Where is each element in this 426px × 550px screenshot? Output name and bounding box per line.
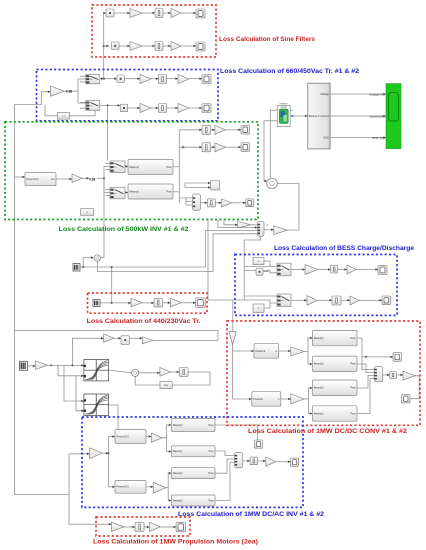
gain block (440/230 row) [131, 298, 142, 307]
wire [172, 372, 210, 385]
region box: Sine Filters loss (red dashed) [92, 5, 216, 57]
wire [166, 472, 172, 488]
constant block (discharge) [253, 304, 264, 312]
wire [244, 266, 277, 268]
display block (INV sum) [291, 458, 299, 466]
svg-text:Loss Calculation of BESS Charg: Loss Calculation of BESS Charge/Discharg… [274, 245, 414, 252]
wire [104, 178, 110, 192]
wire [98, 234, 258, 272]
wire [167, 107, 179, 110]
battery block icon [277, 106, 290, 127]
wire [397, 374, 404, 377]
wire [185, 146, 202, 149]
integrator block (charge) [331, 265, 338, 273]
wire [383, 374, 390, 377]
region box: 1MW DC/AC INV loss (blue dashed) [82, 417, 303, 507]
wire [279, 350, 291, 353]
label: Loss Calculation of BESS Charge/Discharge [274, 245, 414, 252]
product block (aux row) [121, 336, 130, 345]
wire [163, 302, 171, 305]
wire [128, 107, 140, 110]
product block (sine filter row 2 input) [112, 42, 120, 50]
gain block (efficiency out) [274, 226, 287, 235]
scope port label Current (A) [369, 114, 384, 118]
svg-text:T: T [267, 224, 269, 228]
gain block 2 (sine filter row 1) [171, 9, 181, 18]
display block (INV row 1) [241, 125, 250, 134]
wire [104, 77, 117, 80]
display block (charge) [378, 265, 387, 274]
wire [233, 345, 252, 401]
wire [186, 201, 193, 203]
wire [168, 488, 171, 502]
wire [304, 387, 312, 399]
wire [77, 79, 79, 103]
svg-text:out: out [51, 177, 55, 181]
gain block (DC/DC input, down) [229, 331, 236, 344]
wire [173, 191, 179, 193]
svg-text:Voltage (V): Voltage (V) [369, 92, 384, 96]
wire [163, 12, 171, 15]
wire [263, 270, 268, 272]
svg-text:Pow: Pow [208, 498, 213, 502]
wire [244, 271, 277, 273]
display block (Tr#1 row) [202, 75, 211, 84]
gain block (INV row 1) [215, 125, 226, 134]
switch block (discharge) [277, 294, 291, 307]
wire [124, 526, 135, 529]
wire [107, 105, 109, 160]
wire [338, 268, 347, 271]
wire [208, 220, 244, 301]
wire [109, 486, 116, 489]
wire [80, 101, 86, 103]
wire [45, 105, 57, 116]
wire [65, 90, 78, 92]
wire [167, 77, 179, 80]
gain block (CONV#2) [291, 394, 304, 404]
wire [211, 146, 215, 149]
svg-text:Current (A): Current (A) [369, 114, 384, 118]
display block (sine filter row 1) [196, 9, 205, 18]
display block (CONV output) [402, 394, 411, 403]
wire [15, 90, 51, 104]
gain block (500kW input) [72, 174, 82, 183]
wire [100, 178, 104, 257]
value label 0.98 [66, 90, 72, 94]
gain block (660/450 input) [50, 86, 64, 96]
display block (discharge) [382, 296, 391, 305]
subsystem block CONV loss #4 [313, 406, 358, 421]
svg-text:Pow: Pow [350, 362, 355, 366]
gain block 2 (aux row) [142, 337, 153, 344]
wire [142, 45, 155, 48]
display block (INV #1) [254, 440, 262, 448]
subsystem block CONV#1 [254, 344, 279, 359]
wire [80, 81, 86, 83]
svg-text:Pow: Pow [350, 386, 355, 390]
wire [173, 166, 179, 168]
wire [15, 331, 219, 341]
svg-text:PowGUI: PowGUI [256, 349, 266, 353]
transfer fcn block Tau [160, 382, 172, 389]
svg-text:Mean(s): Mean(s) [314, 386, 324, 390]
wire [211, 129, 215, 132]
battery measurement block [308, 83, 330, 149]
region box: 440/230Vac Tr loss (red dashed) [88, 293, 208, 313]
display block (sine filter row 2) [196, 42, 205, 51]
svg-text:PowerGUI: PowerGUI [117, 434, 129, 438]
mux block (CONV outputs) [374, 366, 383, 381]
wire [186, 204, 193, 206]
wire [170, 371, 179, 374]
svg-text:Mean(s): Mean(s) [130, 189, 140, 193]
wire [215, 202, 221, 205]
wire [224, 220, 238, 227]
svg-text:Loss Calculation of 1MW Propul: Loss Calculation of 1MW Propulsion Motor… [93, 539, 258, 546]
subsystem block INV source #1 [115, 430, 146, 444]
svg-text:Mean(s): Mean(s) [314, 411, 324, 415]
wire [277, 184, 299, 231]
battery top label [280, 103, 288, 104]
wire [341, 299, 350, 302]
wire [111, 267, 113, 303]
wire [142, 12, 155, 15]
wire [83, 256, 93, 267]
mux block (2-in) [211, 181, 220, 190]
svg-text:Mean(s): Mean(s) [314, 336, 324, 340]
svg-text:Loss Calculation of 440/230Vac: Loss Calculation of 440/230Vac Tr. [87, 318, 201, 325]
wire [330, 115, 386, 118]
wire [15, 105, 70, 495]
wire [117, 45, 130, 48]
wire [80, 266, 83, 268]
product block (charge) [256, 268, 263, 275]
value label (500kW gain) [89, 178, 95, 182]
gain block (INV#1) [151, 433, 162, 442]
wire [125, 165, 128, 168]
wire [244, 300, 277, 303]
junction [71, 364, 73, 366]
gain block (Tr#2 row) [140, 104, 151, 113]
wire [308, 352, 313, 366]
wire [184, 183, 186, 188]
mux block (INV outputs) [235, 453, 243, 468]
label: Loss Calculation of 1MW DC/DC CONV #1 & #2 [248, 428, 407, 435]
gain block (INV row 2) [215, 143, 226, 152]
gain block (INV sum) [266, 457, 276, 466]
gain block (DC/AC input) [90, 448, 103, 459]
wire [185, 186, 211, 189]
gain block (motors row) [111, 522, 124, 531]
junction [108, 452, 110, 454]
display block (Tr#2 row) [202, 104, 211, 113]
svg-text:Loss Calculation of 500kW INV: Loss Calculation of 500kW INV #1 & #2 [59, 226, 189, 233]
switch block Tr#1 [86, 74, 100, 84]
svg-text:Loss Calculation of 660/450Vac: Loss Calculation of 660/450Vac Tr. #1 & … [220, 68, 359, 75]
wire [215, 463, 235, 501]
wire [162, 424, 171, 438]
svg-text:SOC (%): SOC (%) [372, 136, 384, 140]
region box: 660/450Vac Tr loss (blue dashed) [37, 70, 219, 121]
wire [135, 376, 160, 385]
gain block (propulsion feed) [36, 361, 48, 370]
wire [144, 526, 149, 529]
junction [103, 177, 105, 179]
wire [125, 191, 128, 194]
wire [56, 178, 72, 181]
scope port label SOC (%) [372, 136, 384, 140]
wire [130, 337, 142, 340]
gain block 2 (Tr#2 row) [178, 104, 189, 113]
wire [357, 364, 374, 373]
gain block (charge) [305, 265, 318, 275]
wire [189, 107, 202, 110]
wire [182, 302, 196, 305]
constant block (660/450) [57, 112, 69, 119]
wire [15, 176, 26, 179]
wire [64, 365, 84, 402]
wire [291, 299, 307, 302]
wire [179, 197, 192, 199]
wire [359, 299, 382, 302]
wire [80, 107, 86, 109]
wire [330, 136, 386, 139]
svg-text:Loss Calculation of Sine Filte: Loss Calculation of Sine Filters [219, 36, 315, 43]
svg-text:Mean(s): Mean(s) [130, 165, 140, 169]
wire [109, 370, 132, 373]
wire [142, 302, 154, 305]
switch block INV#2 [110, 187, 125, 199]
subsystem block CONV loss #2 [313, 356, 358, 371]
subsystem block INV#2 loss calc [128, 184, 173, 199]
junction [103, 45, 105, 47]
gain block (INV#2) [153, 482, 166, 493]
wire [139, 372, 160, 375]
wire [106, 169, 111, 171]
wire [167, 438, 172, 453]
svg-text:Mean(s): Mean(s) [173, 471, 183, 475]
mux block (efficiency) [257, 222, 264, 237]
three-phase source block (440/230 Tr) [93, 300, 100, 307]
wire [290, 109, 293, 111]
wire [244, 236, 261, 300]
gain block (efficiency) [238, 222, 251, 229]
wire [201, 202, 208, 205]
sum block (load power) [94, 255, 100, 261]
gain block (sine filter row 2) [130, 42, 142, 51]
svg-text:Mean(s): Mean(s) [173, 423, 183, 427]
green scope block [386, 84, 401, 149]
svg-text:SOC: SOC [323, 136, 329, 140]
wire [48, 364, 84, 367]
wire [264, 121, 277, 181]
display block (INV sum) [246, 199, 254, 207]
gain block (discharge) [307, 296, 317, 306]
three-phase source block (440V feed) [73, 264, 80, 271]
wire [181, 45, 196, 48]
wire [109, 435, 116, 438]
junction [103, 78, 105, 80]
wire [251, 224, 258, 226]
svg-text:Pow: Pow [208, 449, 213, 453]
product block (Tr#2 row) [120, 104, 128, 112]
wire [106, 189, 111, 191]
wire [318, 268, 331, 271]
wire [78, 78, 86, 80]
gain block 2 (440/230 row) [170, 298, 181, 307]
gain block (Tr#1 row) [140, 75, 151, 84]
wire [225, 146, 241, 149]
wire [146, 435, 151, 438]
wire [264, 303, 270, 308]
wire [151, 107, 159, 110]
2-D lookup table block (motor #1) [83, 360, 108, 381]
label: Loss Calculation of 440/230Vac Tr. [87, 318, 201, 325]
wire [233, 350, 254, 353]
subsystem block CONV loss #1 [313, 330, 358, 345]
wire [103, 13, 105, 79]
integrator block (440/230 row) [154, 298, 163, 307]
junction [111, 266, 113, 268]
product block (Tr#1 row) [117, 75, 125, 83]
junction [82, 266, 84, 268]
wire [185, 198, 187, 205]
wire [106, 163, 111, 165]
wire [232, 300, 234, 331]
2-D lookup table block (motor #2) [83, 394, 108, 415]
svg-text:0.98: 0.98 [89, 178, 95, 182]
gain block (INV sum) [221, 199, 232, 207]
integrator block (discharge) [332, 296, 341, 305]
wire [243, 460, 250, 463]
integrator block (Tr#2 row) [159, 104, 167, 113]
wire [76, 376, 84, 412]
port label (battery output) [291, 115, 293, 117]
subsystem block INV loss #2 [171, 446, 215, 457]
switch block Tr#2 [86, 101, 100, 111]
subsystem block INV#1 loss calc [128, 159, 173, 174]
subsystem block INV source #2 [115, 480, 146, 493]
svg-text:Mean(s): Mean(s) [173, 449, 183, 453]
switch block (charge) [277, 263, 291, 276]
wire [215, 451, 235, 456]
gain block 2 (charge) [347, 265, 356, 274]
wire [276, 460, 291, 463]
junction [107, 104, 109, 106]
wire [82, 177, 89, 180]
integrator block (INV row 2) [202, 143, 211, 152]
gain block (CONV#1) [291, 347, 304, 356]
wire [161, 526, 177, 529]
wire [124, 77, 140, 80]
label: Loss Calculation of 1MW DC/AC INV #1 & #2 [178, 511, 324, 518]
wire [291, 268, 305, 271]
wire [189, 77, 202, 80]
subsystem block INV loss #1 [171, 419, 215, 432]
wire [151, 77, 159, 80]
svg-text:Pow: Pow [350, 336, 355, 340]
wire [357, 338, 374, 370]
green scope inner screen [388, 93, 398, 122]
subsystem block 500kW source [25, 173, 56, 186]
subsystem block CONV#2 [252, 392, 281, 407]
integrator block (INV row 1) [202, 125, 211, 134]
label T (efficiency) [267, 224, 269, 228]
gain block 2 (sine filter row 2) [171, 42, 181, 51]
svg-text:Pow: Pow [166, 189, 171, 193]
gain block 2 (Tr#1 row) [178, 75, 189, 84]
svg-text:Pow: Pow [350, 411, 355, 415]
wire [100, 77, 104, 80]
wire [225, 129, 241, 132]
subsystem block INV loss #4 [171, 495, 215, 506]
constant block (charge) [253, 258, 264, 265]
gain block (sine filter row 1) [130, 9, 142, 18]
svg-text:Tau: Tau [164, 384, 169, 387]
wire [58, 365, 84, 377]
wire [69, 110, 95, 116]
label: Loss Calculation of 500kW INV #1 & #2 [59, 226, 189, 233]
wire [264, 180, 267, 183]
wire [218, 220, 257, 229]
gain block (aux row) [104, 334, 114, 343]
wire [100, 104, 121, 107]
svg-text:[ ]: [ ] [86, 211, 88, 214]
wire [410, 376, 419, 399]
label: Loss Calculation of Sine Filters [219, 36, 315, 43]
wire [181, 12, 196, 15]
wire [290, 115, 308, 118]
integrator block (motors row) [135, 522, 144, 531]
wire [78, 102, 86, 104]
svg-text:PowerGUI: PowerGUI [27, 177, 39, 181]
wire [28, 365, 36, 368]
wire [264, 228, 274, 231]
display block (CONV #2) [393, 353, 402, 362]
integrator block (INV sum) [207, 199, 215, 207]
label: Loss Calculation of 1MW Propulsion Motors (2ea) [93, 539, 258, 546]
gain block (CONV sum) [403, 371, 415, 380]
svg-text:Voltage: Voltage [320, 92, 329, 96]
integrator block (INV sum) [250, 457, 258, 465]
svg-text:[ ]: [ ] [62, 115, 64, 118]
sum block (battery power) [267, 178, 278, 189]
constant block (500kW) [81, 209, 94, 216]
wire [317, 299, 332, 302]
wire [264, 261, 270, 267]
wire [270, 110, 277, 176]
region box: 500kW INV loss (green dashed) [5, 122, 258, 220]
wire [69, 453, 90, 456]
wire [330, 93, 386, 96]
svg-text:Pow: Pow [166, 165, 171, 169]
region box: 1MW Propulsion Motors loss (red dashed) [96, 517, 190, 536]
wire [108, 437, 110, 487]
svg-text:0.98: 0.98 [66, 90, 72, 94]
svg-text:PowerGUI: PowerGUI [117, 485, 129, 489]
scope port label Voltage (V) [369, 92, 384, 96]
region box: BESS charge/discharge loss (blue dashed) [235, 255, 397, 316]
integrator block (sine filter row 2) [155, 42, 163, 51]
integrator block (Tr#1 row) [159, 75, 167, 84]
wire [97, 167, 110, 179]
wire [106, 195, 111, 197]
svg-text:Pow: Pow [208, 471, 213, 475]
wire [215, 459, 235, 473]
svg-text:PowGUI: PowGUI [253, 397, 263, 401]
junction [365, 356, 367, 358]
